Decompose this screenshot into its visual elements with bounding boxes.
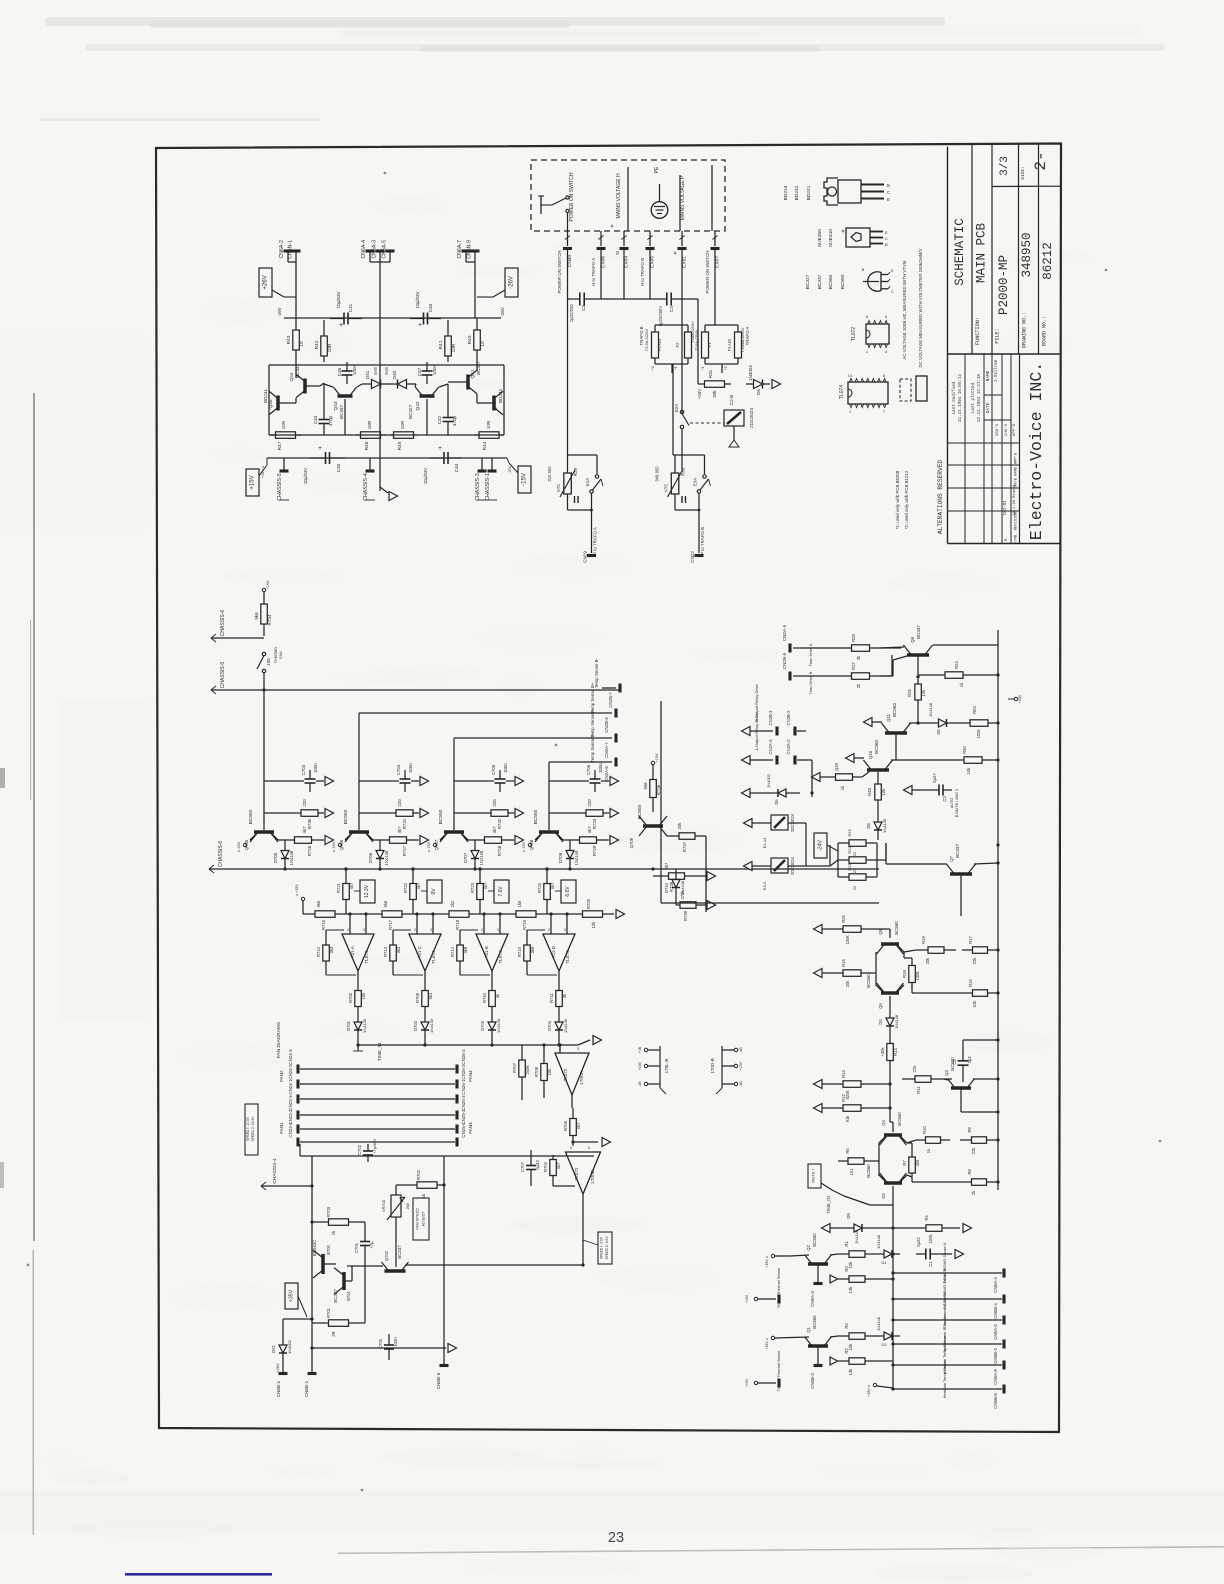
svg-text:R18: R18 — [902, 969, 907, 977]
wire stage feed — [548, 781, 550, 830]
wire TIME bus — [358, 1044, 560, 1046]
connector CN2A-7 Temp Sense A- — [454, 737, 612, 739]
svg-text:CN5B-3: CN5B-3 — [810, 1373, 815, 1389]
svg-text:22k: 22k — [972, 957, 977, 965]
svg-text:4k7: 4k7 — [587, 826, 592, 834]
capacitor C700 100n — [388, 1334, 390, 1345]
svg-text:E: E — [887, 197, 890, 202]
svg-text:TL074: TL074 — [498, 950, 504, 964]
svg-text:E3-0: E3-0 — [762, 881, 767, 890]
svg-text:-15V: -15V — [522, 473, 528, 486]
resistor R25 10k — [917, 679, 919, 684]
ground — [380, 487, 388, 493]
transistor Q10 BC560 — [867, 768, 889, 772]
svg-text:R704: R704 — [543, 1161, 548, 1172]
svg-text:DC VOLTAGE MEASURED WITH VOLTM: DC VOLTAGE MEASURED WITH VOLTMETER 100kO… — [918, 248, 923, 367]
svg-text:SPEED 2: 9.6V: SPEED 2: 9.6V — [605, 1236, 609, 1260]
svg-text:A Output Relay Drive: A Output Relay Drive — [754, 713, 759, 751]
svg-text:CN2A-2: CN2A-2 — [786, 739, 791, 755]
mains dashed box — [531, 160, 725, 231]
resistor R731 220 — [359, 812, 393, 814]
svg-text:Heatsink Temp Sense: Heatsink Temp Sense — [942, 1359, 947, 1399]
svg-text:R5: R5 — [845, 1148, 850, 1154]
resistor R14 430k — [889, 1036, 891, 1044]
resistor R733 220 — [549, 812, 583, 814]
svg-text:TL074: TL074 — [431, 950, 437, 964]
svg-text:1k5: 1k5 — [517, 900, 522, 907]
connector CHASSIS-3 — [481, 458, 483, 470]
svg-text:CN2B-2: CN2B-2 — [786, 710, 791, 726]
svg-text:103-91: 103-91 — [1004, 500, 1008, 516]
svg-text:THERMO: THERMO — [274, 647, 278, 663]
title block bottom line — [948, 543, 1060, 545]
resistor R716 5k6 — [311, 913, 315, 915]
svg-text:TIME_IN: TIME_IN — [826, 1196, 831, 1213]
svg-text:R23: R23 — [847, 829, 852, 837]
svg-text:R725: R725 — [586, 898, 591, 909]
resistors R21 R22 R23 22R — [837, 843, 839, 877]
earth symbol PE — [651, 202, 668, 219]
resistor R13 820k — [832, 1083, 843, 1085]
transistor Q3b BC560 — [884, 1181, 902, 1185]
connector CN30 — [563, 247, 572, 250]
svg-text:C3: C3 — [581, 305, 586, 311]
resistor R702 1k — [395, 1185, 397, 1195]
svg-text:DSG'D: DSG'D — [995, 423, 1000, 436]
svg-text:SYMB. REVISION: SYMB. REVISION — [1015, 512, 1019, 544]
resistor R42 10R — [323, 330, 325, 336]
svg-text:470p: 470p — [452, 415, 457, 426]
connector CN5B-3 rail B — [440, 1364, 449, 1367]
svg-text:1700B: 1700B — [590, 1170, 596, 1184]
wire to cluster G — [705, 836, 707, 912]
resistor R50 10k — [896, 759, 948, 761]
resistor R715 3k9 — [526, 938, 528, 945]
svg-text:-15V: -15V — [508, 466, 512, 474]
svg-text:C705: C705 — [491, 764, 496, 775]
svg-text:POWER ON SWITCH: POWER ON SWITCH — [557, 251, 562, 294]
flag C706 — [601, 780, 609, 782]
svg-text:1N4148: 1N4148 — [894, 1014, 899, 1029]
svg-text:1N4148: 1N4148 — [876, 1316, 881, 1331]
svg-text:*2: used only with PCB B1212: *2: used only with PCB B1212 — [904, 470, 909, 529]
svg-text:E: E — [885, 230, 888, 235]
svg-text:CN26-2: CN26-2 — [461, 1064, 466, 1080]
connector CX06 — [597, 247, 606, 250]
svg-text:F1: F1 — [707, 342, 712, 348]
capacitor C704 100n — [359, 780, 399, 782]
node +15V flag — [246, 469, 259, 496]
wire CN24-3 to CN26-3 — [300, 1068, 455, 1070]
svg-text:TRAFO A: TRAFO A — [745, 327, 750, 346]
svg-text:CN5B-3: CN5B-3 — [436, 1372, 441, 1389]
capacitor C705 100n — [454, 780, 494, 782]
svg-text:C40: C40 — [428, 303, 433, 312]
revision table grid — [1019, 354, 1021, 544]
svg-text:-26V: -26V — [277, 306, 282, 317]
svg-text:+35V: +35V — [288, 1289, 294, 1302]
transistor Q45 BD241 — [276, 396, 280, 411]
resistor R8 2k — [960, 1181, 972, 1183]
capacitor C45 10u/63V — [310, 457, 326, 459]
connector CX01 — [678, 247, 687, 250]
svg-text:3: 3 — [577, 1047, 579, 1051]
wire stage feed — [453, 781, 455, 830]
svg-text:R31: R31 — [708, 369, 713, 378]
svg-text:10µ/63V: 10µ/63V — [415, 290, 420, 308]
resistor R12 91k — [832, 1107, 843, 1109]
svg-text:F1-US: F1-US — [727, 339, 732, 351]
svg-text:SPEED 2: 15.9V: SPEED 2: 15.9V — [251, 1116, 255, 1142]
svg-text:6k8: 6k8 — [643, 782, 648, 790]
resistor R2q 10k — [838, 1335, 849, 1337]
svg-text:SPEED I: 3.5V: SPEED I: 3.5V — [600, 1236, 604, 1259]
svg-text:470k: 470k — [680, 890, 685, 900]
svg-text:DATE: DATE — [986, 402, 991, 413]
emitter terminal -15V Q706 — [345, 832, 353, 840]
resistor R4 100k — [916, 1227, 926, 1229]
svg-text:1N4148: 1N4148 — [479, 850, 484, 865]
wire stage feeds — [263, 690, 265, 781]
capacitor C707 0u33 — [530, 1155, 532, 1166]
svg-text:SCHEMATIC: SCHEMATIC — [953, 218, 967, 286]
svg-text:CN5A-4: CN5A-4 — [993, 1277, 998, 1293]
connector CN2B-6 Temp Sense B+ — [359, 712, 612, 714]
svg-text:22k: 22k — [971, 1147, 976, 1155]
resistor R44 10R — [474, 434, 479, 436]
svg-text:CX04: CX04 — [624, 256, 630, 268]
svg-text:Q10: Q10 — [868, 750, 873, 759]
diode D704 1N4148 — [558, 1012, 560, 1022]
svg-text:Last plotted: Last plotted — [971, 382, 976, 413]
svg-text:F2-US: F2-US — [657, 339, 662, 351]
connector CN5B-3b — [814, 1364, 823, 1367]
svg-text:Q42: Q42 — [415, 401, 421, 410]
resistor R04 100k — [960, 722, 970, 724]
svg-text:C4: C4 — [669, 306, 674, 312]
svg-text:10: 10 — [299, 341, 305, 347]
svg-text:R712: R712 — [316, 946, 321, 957]
svg-text:220: 220 — [912, 1065, 917, 1073]
svg-text:R10: R10 — [922, 1125, 927, 1133]
wire CN23-3 to CN25-3 — [300, 1114, 455, 1116]
resistor R727 4k7 — [380, 839, 390, 841]
svg-text:CN2B-3: CN2B-3 — [768, 710, 773, 726]
svg-text:POWER ON SWITCH: POWER ON SWITCH — [569, 172, 575, 221]
label box FAN SPEED ADJUST — [413, 1198, 429, 1240]
connector CN6A-4 — [366, 249, 375, 252]
diode D40 — [388, 383, 407, 385]
title block outline — [947, 147, 949, 544]
svg-text:R733: R733 — [592, 818, 597, 829]
svg-text:NTC: NTC — [664, 484, 669, 493]
transistor Q43 BC337 — [338, 394, 353, 398]
resistor R49 1k — [826, 776, 836, 778]
wire chain — [339, 913, 378, 915]
svg-text:10: 10 — [480, 341, 486, 347]
svg-text:21.11.1994 15:05:14: 21.11.1994 15:05:14 — [959, 374, 963, 422]
svg-text:FAN DIAGRAMS: FAN DIAGRAMS — [276, 1022, 282, 1058]
svg-text:1N4148: 1N4148 — [289, 850, 294, 865]
svg-text:C42: C42 — [437, 415, 442, 424]
transistor Q44 BC337 — [303, 379, 307, 394]
svg-text:+15V o: +15V o — [261, 466, 265, 478]
svg-text:Q3: Q3 — [944, 1070, 949, 1076]
svg-text:APP'D: APP'D — [1012, 423, 1017, 436]
svg-text:R711: R711 — [549, 992, 554, 1002]
svg-text:10k: 10k — [966, 767, 971, 775]
svg-text:701-B: 701-B — [484, 946, 489, 958]
wire mains P — [679, 175, 681, 231]
svg-text:CHASSIS-4: CHASSIS-4 — [272, 1158, 278, 1184]
legend AC voltage note — [900, 379, 911, 401]
svg-text:C706: C706 — [586, 764, 591, 775]
resistor R717 5k6 — [378, 913, 382, 915]
transistor Q6 BC560 — [881, 942, 899, 946]
svg-text:100n: 100n — [352, 364, 357, 375]
svg-text:R705: R705 — [348, 992, 353, 1003]
wire TIME bus to flag — [560, 1044, 578, 1046]
svg-text:3: 3 — [430, 928, 432, 932]
svg-text:Q7: Q7 — [949, 856, 954, 862]
flag C704 — [411, 780, 419, 782]
svg-text:100k: 100k — [928, 1234, 933, 1244]
capacitor C706 100n — [549, 780, 589, 782]
wire to fuse F2 — [680, 298, 698, 300]
svg-text:P2000-MP: P2000-MP — [997, 255, 1011, 315]
svg-text:DRAWING NO.:: DRAWING NO.: — [1022, 312, 1028, 348]
node -15V flag — [518, 466, 531, 493]
svg-text:+26V: +26V — [276, 1363, 280, 1372]
svg-text:Q5: Q5 — [878, 1003, 883, 1009]
svg-text:C: C — [885, 236, 888, 241]
resistor R24 1k — [918, 674, 945, 676]
svg-text:D8: D8 — [866, 823, 871, 829]
svg-text:CN6A-3: CN6A-3 — [372, 240, 378, 259]
svg-text:E3A: E3A — [693, 478, 698, 486]
svg-text:B: B — [887, 183, 890, 188]
wire block loop — [660, 701, 662, 903]
svg-text:CN23-1: CN23-1 — [288, 1122, 293, 1138]
svg-text:-4B: -4B — [739, 1081, 743, 1087]
wire lower rail — [892, 1205, 894, 1389]
svg-text:D702: D702 — [413, 1020, 418, 1031]
svg-text:D705: D705 — [273, 852, 278, 863]
svg-text:10R: 10R — [486, 420, 491, 429]
flag chain out — [616, 910, 625, 919]
svg-text:0µ22: 0µ22 — [916, 1237, 921, 1247]
resistor R713 3k3 — [392, 938, 394, 945]
svg-text:1N4148: 1N4148 — [882, 818, 887, 833]
svg-text:CN24-3: CN24-3 — [288, 1049, 293, 1065]
transistor Q702 BC337 — [385, 1269, 406, 1273]
svg-text:CN5A-8: CN5A-8 — [993, 1369, 998, 1385]
svg-text:FAN: FAN — [279, 651, 283, 659]
svg-text:CN23-2: CN23-2 — [288, 1109, 293, 1125]
wire top rail -26V — [284, 317, 501, 319]
flag mid — [573, 1141, 598, 1143]
resistor R719 1k5 — [512, 913, 516, 915]
svg-text:BC550: BC550 — [533, 809, 539, 824]
capacitor C47 100n — [426, 362, 428, 371]
svg-text:FAN2: FAN2 — [279, 1070, 284, 1082]
switch 105 THERMO FAN — [262, 652, 265, 655]
svg-text:R726: R726 — [307, 845, 312, 856]
svg-text:20k: 20k — [677, 822, 682, 830]
svg-text:13.1.94 Brandt: 13.1.94 Brandt — [1012, 484, 1017, 516]
svg-text:BC560: BC560 — [812, 1315, 817, 1329]
resistor R724 4k7 — [546, 869, 548, 884]
svg-text:22.11.1994 12:31:18: 22.11.1994 12:31:18 — [978, 374, 982, 422]
svg-text:BD213: BD213 — [783, 185, 789, 200]
svg-text:4k7: 4k7 — [416, 882, 421, 889]
svg-text:R17: R17 — [968, 935, 973, 943]
svg-text:R728: R728 — [497, 845, 502, 856]
svg-text:C701: C701 — [354, 1242, 359, 1253]
connector CN2B-5 Triac Drive B — [788, 672, 791, 681]
svg-text:+15V: +15V — [739, 1061, 743, 1070]
resistor R718 2k2 — [445, 913, 449, 915]
connector CHASSIS-1 — [491, 458, 493, 470]
svg-text:Q45: Q45 — [268, 399, 274, 408]
wire stubs to connector row — [567, 231, 569, 246]
svg-text:BC550: BC550 — [248, 809, 254, 824]
svg-text:ADJUST: ADJUST — [421, 1211, 426, 1227]
diode D2 1N4148 — [876, 1335, 884, 1337]
svg-text:CN25-3: CN25-3 — [461, 1095, 466, 1111]
svg-text:Triac Drive A: Triac Drive A — [808, 643, 813, 666]
svg-text:BC560: BC560 — [874, 740, 879, 754]
svg-text:R04: R04 — [972, 705, 977, 713]
svg-text:3: 3 — [564, 928, 566, 932]
svg-text:AC VOLTAGE 100B HZ, MEASURED W: AC VOLTAGE 100B HZ, MEASURED WITH VTVM — [902, 260, 907, 359]
svg-text:5k6: 5k6 — [383, 900, 388, 907]
svg-text:TL074: TL074 — [364, 950, 370, 964]
svg-text:C3: C3 — [942, 796, 947, 802]
resistor R15 20k — [832, 972, 843, 974]
ground fan — [448, 1344, 457, 1353]
node box MUTE I — [808, 1164, 821, 1188]
svg-text:C707: C707 — [520, 1161, 525, 1172]
svg-text:R737: R737 — [682, 841, 687, 852]
svg-text:E1A: E1A — [585, 478, 590, 486]
mini diagram 170D-B — [721, 1046, 723, 1088]
svg-text:R727: R727 — [402, 845, 407, 856]
svg-text:0µ33: 0µ33 — [535, 1160, 540, 1170]
svg-text:BC550: BC550 — [840, 274, 846, 289]
node +26V flag — [259, 268, 272, 297]
svg-text:R718: R718 — [455, 919, 460, 930]
svg-text:BD242: BD242 — [498, 389, 503, 403]
svg-text:-4B: -4B — [638, 1081, 642, 1087]
svg-text:R734: R734 — [267, 614, 272, 625]
resistor R710 4k — [491, 971, 493, 985]
svg-text:Q702: Q702 — [384, 1250, 389, 1261]
scan streaks top — [45, 17, 1165, 52]
svg-text:C1: C1 — [928, 1261, 933, 1267]
connector CX04 — [620, 247, 629, 250]
svg-text:C45: C45 — [336, 463, 341, 472]
svg-text:R48: R48 — [867, 787, 872, 795]
svg-text:+7µ: +7µ — [369, 1241, 374, 1249]
svg-text:TL074: TL074 — [565, 950, 571, 964]
flag C1 out — [955, 1250, 964, 1259]
svg-text:BC337: BC337 — [333, 1289, 338, 1303]
wire CN6A group — [369, 252, 371, 262]
svg-text:MAIN PCB: MAIN PCB — [975, 222, 989, 283]
wire fan rail A — [311, 1156, 313, 1372]
transistor Q709 BC550 — [643, 824, 663, 828]
svg-text:R730: R730 — [307, 818, 312, 829]
svg-text:CN22: CN22 — [690, 551, 695, 563]
wire mains H — [627, 167, 629, 231]
wire chain — [540, 913, 579, 915]
connector CHASSIS-6 arrow — [211, 637, 264, 639]
svg-text:R2: R2 — [844, 1323, 849, 1329]
resistor R729 4k7 — [570, 839, 580, 841]
svg-text:100k: 100k — [845, 935, 850, 945]
diode D710 1N4148 — [675, 869, 677, 880]
resistor R725 10k chain end — [579, 913, 583, 915]
svg-text:3k3: 3k3 — [329, 946, 334, 953]
svg-text:1N4002: 1N4002 — [748, 365, 753, 382]
svg-text:D40: D40 — [392, 370, 397, 379]
svg-text:10k: 10k — [547, 1068, 552, 1076]
svg-text:100n: 100n — [313, 763, 318, 773]
svg-text:D9: D9 — [846, 1213, 851, 1219]
resistor R10 1k — [916, 1139, 926, 1141]
svg-text:100n: 100n — [503, 763, 508, 773]
svg-text:2: 2 — [347, 928, 349, 932]
svg-text:CN2A-6: CN2A-6 — [604, 766, 609, 782]
svg-text:470p: 470p — [328, 415, 333, 426]
svg-text:348950: 348950 — [1020, 232, 1034, 277]
svg-text:R723: R723 — [470, 882, 475, 893]
svg-text:348 950: 348 950 — [655, 466, 660, 482]
svg-text:5k1: 5k1 — [428, 992, 433, 999]
connector CN5B-2 fan — [282, 1360, 284, 1372]
svg-text:R19: R19 — [921, 935, 926, 943]
svg-text:7.6V: 7.6V — [498, 886, 504, 897]
wire CN24-1 to CN26-1 — [300, 1098, 455, 1100]
svg-text:D41: D41 — [365, 370, 370, 379]
svg-text:BD242: BD242 — [794, 185, 800, 200]
capacitor C5 3u3 — [962, 1044, 964, 1061]
svg-text:6V8: 6V8 — [384, 367, 389, 375]
svg-text:23: 23 — [608, 1530, 624, 1546]
svg-text:R701: R701 — [326, 1307, 331, 1318]
svg-text:100n: 100n — [598, 763, 603, 773]
sense row CN5B-4 DC/AV/SOAR Sense B — [893, 1298, 1002, 1300]
svg-text:C46: C46 — [337, 367, 342, 376]
svg-text:R706: R706 — [563, 1120, 568, 1131]
resistor R707 240k — [558, 1043, 561, 1046]
node test voltage box 7.6V — [494, 880, 509, 903]
svg-text:Q4: Q4 — [881, 1120, 886, 1126]
svg-text:+15V o: +15V o — [765, 1338, 769, 1350]
transistor Q40 BD242 — [492, 396, 496, 411]
svg-text:PE: PE — [654, 166, 660, 173]
svg-text:P: P — [673, 251, 678, 254]
wire right rail — [997, 630, 999, 1190]
svg-text:14: 14 — [848, 373, 853, 378]
svg-text:C41: C41 — [348, 303, 353, 312]
svg-text:FUNCTION:: FUNCTION: — [975, 317, 981, 345]
transistor Q11 BC560 — [885, 731, 907, 735]
resistor R47 10R — [269, 434, 276, 436]
transistor Q8 BC337 — [907, 653, 929, 657]
svg-text:CN2A-5: CN2A-5 — [782, 624, 787, 641]
